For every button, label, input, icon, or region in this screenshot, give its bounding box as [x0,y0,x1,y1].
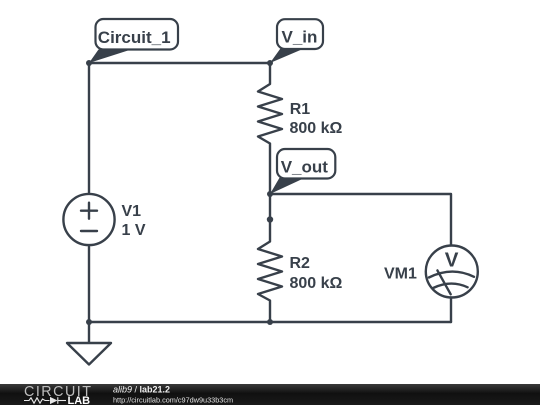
net label Circuit_1 [89,19,178,63]
resistor R1 [258,63,282,194]
svg-text:V_in: V_in [282,28,318,47]
svg-text:alib9 / lab21.2: alib9 / lab21.2 [113,384,170,394]
wire left lower (V1 to bottom rail) [88,245,90,322]
svg-text:V_out: V_out [281,157,329,176]
svg-text:LAB: LAB [68,395,91,405]
wire V_out to VM1 [270,194,451,246]
wire top horizontal (node A to V_in node) [89,62,270,64]
junction node V_out [267,191,273,197]
svg-text:R2: R2 [290,255,311,272]
resistor R2 [258,219,282,322]
footer bar [0,384,540,405]
wire left upper (node A down to V1) [88,63,90,194]
svg-text:800 kΩ: 800 kΩ [290,120,343,137]
svg-text:1 V: 1 V [122,222,146,239]
svg-text:VM1: VM1 [384,266,417,283]
junction node V_in [267,60,273,66]
voltmeter VM1 [426,246,478,298]
wire VM1 to bottom rail [450,298,452,323]
wire between V_out node and R2 [269,194,271,219]
svg-text:V: V [445,249,459,272]
svg-text:R1: R1 [290,101,311,118]
net label V_in [270,19,323,63]
svg-text:V1: V1 [122,203,142,220]
junction bottom left [86,319,92,325]
label R2 value [290,255,343,292]
svg-text:http://circuitlab.com/c97dw9u3: http://circuitlab.com/c97dw9u33b3cm [113,396,233,405]
voltage source V1 [63,194,114,245]
wire bottom rail [89,321,451,323]
svg-text:800 kΩ: 800 kΩ [290,275,343,292]
junction node A (top left) [86,60,92,66]
label R1 value [290,101,343,137]
label V1 value [122,203,146,239]
net label V_out [270,149,335,194]
ground [67,322,111,365]
CircuitLab logo symbol row: wire, resistor zigzag, diode [24,397,66,404]
junction R1/R2 [267,216,273,222]
junction R2 bottom [267,319,273,325]
svg-text:Circuit_1: Circuit_1 [98,28,171,47]
